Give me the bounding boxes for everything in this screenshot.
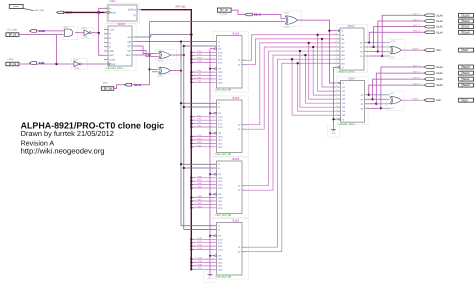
wire xorB out bbox=[171, 70, 181, 72]
svg-text:OUT_3: OUT_3 bbox=[413, 13, 421, 16]
svg-text:CH1: CH1 bbox=[198, 240, 203, 243]
svg-text:74153: 74153 bbox=[231, 218, 239, 222]
gate bounds AND bbox=[63, 27, 78, 40]
IC U6 74153 center #2 bbox=[213, 96, 249, 157]
svg-text:P_IN: P_IN bbox=[106, 87, 112, 91]
thick wire U1 to bus corner bbox=[141, 10, 191, 271]
svg-text:ENT: ENT bbox=[109, 54, 114, 57]
svg-text:4070: 4070 bbox=[158, 60, 164, 63]
svg-text:4: 4 bbox=[194, 244, 195, 247]
svg-text:OUT_0: OUT_0 bbox=[413, 30, 421, 33]
svg-text:Drawn by furrtek 21/05/2012: Drawn by furrtek 21/05/2012 bbox=[21, 129, 114, 138]
svg-text:S1P: S1P bbox=[436, 49, 441, 52]
svg-text:4: 4 bbox=[194, 57, 195, 60]
svg-text:12: 12 bbox=[194, 141, 196, 144]
wire mid xor out to selects bbox=[298, 20, 337, 83]
svg-text:CLR: CLR bbox=[109, 28, 114, 31]
svg-text:2G: 2G bbox=[218, 132, 221, 135]
gate bounds XOR right2 bbox=[387, 91, 405, 111]
svg-text:1G: 1G bbox=[218, 173, 221, 176]
svg-text:S1P: S1P bbox=[463, 48, 468, 52]
wire mid xor in2 bbox=[150, 21, 285, 23]
svg-text:G: G bbox=[342, 66, 344, 69]
XOR gate right2 bbox=[391, 96, 401, 104]
svg-text:13: 13 bbox=[194, 144, 196, 147]
svg-text:CH6: CH6 bbox=[198, 263, 203, 266]
junction row2 bbox=[55, 63, 57, 65]
svg-text:GND: GND bbox=[208, 277, 213, 280]
svg-text:11: 11 bbox=[194, 138, 196, 141]
global label arrow top mid bbox=[245, 13, 252, 16]
svg-text:CLK: CLK bbox=[111, 63, 116, 66]
svg-text:U1A: U1A bbox=[110, 0, 116, 3]
wire inverter to U2 ENT bbox=[99, 33, 104, 55]
svg-text:1: 1 bbox=[63, 29, 64, 32]
IC U1 pin SER bbox=[104, 7, 108, 9]
svg-text:S1A0: S1A0 bbox=[463, 30, 470, 34]
input port top middle bbox=[217, 8, 231, 12]
svg-text:4: 4 bbox=[194, 121, 195, 124]
svg-text:S1A1: S1A1 bbox=[436, 26, 443, 29]
XOR gate A bbox=[160, 52, 171, 59]
junction on CLK wire bbox=[97, 11, 100, 14]
svg-text:ENP: ENP bbox=[109, 50, 114, 53]
svg-text:P_IN: P_IN bbox=[10, 62, 16, 66]
svg-text:5: 5 bbox=[336, 93, 337, 96]
svg-text:5: 5 bbox=[194, 240, 195, 243]
gate bounds XOR B bbox=[158, 63, 179, 74]
AND gate U3 bbox=[65, 29, 73, 36]
junction QA bus bbox=[190, 33, 193, 36]
wire RCO tap bbox=[137, 54, 150, 56]
svg-text:CLK: CLK bbox=[111, 11, 116, 14]
wire QD down bbox=[137, 51, 159, 57]
svg-text:12: 12 bbox=[194, 202, 196, 205]
svg-text:2: 2 bbox=[336, 85, 337, 88]
svg-text:Q: Q bbox=[134, 14, 136, 17]
svg-text:P_CLK: P_CLK bbox=[220, 13, 228, 16]
gate bounds XOR A bbox=[156, 50, 177, 61]
wire buffer2 to U2 CLK bbox=[81, 63, 108, 65]
svg-text:5: 5 bbox=[335, 41, 336, 44]
wire x149.5 vertical bbox=[149, 22, 151, 85]
gate bounds INV bbox=[82, 28, 94, 39]
svg-text:2: 2 bbox=[335, 32, 336, 35]
svg-text:S2P: S2P bbox=[436, 99, 441, 102]
GND symbol below mux2 bbox=[328, 126, 340, 137]
svg-text:74AS_MC2_BR: 74AS_MC2_BR bbox=[215, 153, 232, 156]
svg-text:OUT_4: OUT_4 bbox=[413, 82, 421, 85]
svg-text:S2PA: S2PA bbox=[413, 98, 419, 101]
output group2 rows bbox=[368, 94, 370, 96]
wire A into IC1 bbox=[181, 41, 217, 43]
svg-text:6: 6 bbox=[336, 97, 337, 100]
IC U1 faint bounds bbox=[107, 4, 140, 24]
wire QC to xorA bbox=[137, 46, 159, 54]
XOR gate B bbox=[160, 67, 171, 74]
svg-text:10: 10 bbox=[194, 134, 196, 137]
svg-text:12: 12 bbox=[194, 264, 196, 267]
svg-text:OUT_5: OUT_5 bbox=[413, 76, 421, 79]
wires mux1 rows tapped down to mux2 inputs bbox=[318, 35, 337, 91]
svg-text:6: 6 bbox=[194, 50, 195, 53]
svg-text:REF_8M: REF_8M bbox=[176, 6, 186, 9]
svg-text:5: 5 bbox=[194, 118, 195, 121]
svg-text:QB: QB bbox=[128, 40, 132, 43]
svg-text:RCO: RCO bbox=[126, 54, 131, 57]
svg-text:S1A2: S1A2 bbox=[436, 20, 443, 23]
svg-text:S2A0: S2A0 bbox=[463, 83, 470, 87]
thick wire CLK to U1 bbox=[64, 11, 108, 13]
svg-text:QC: QC bbox=[128, 45, 132, 48]
IC U8 74153 center #4 bbox=[213, 219, 249, 280]
wire QB over bbox=[137, 41, 182, 43]
sheet symbol box top-left bbox=[9, 4, 23, 8]
svg-text:10: 10 bbox=[194, 257, 196, 260]
svg-text:13: 13 bbox=[194, 205, 196, 208]
svg-text:5: 5 bbox=[194, 179, 195, 182]
svg-text:CH3: CH3 bbox=[198, 247, 203, 250]
svg-text:OUT_2: OUT_2 bbox=[413, 18, 421, 21]
svg-text:4070: 4070 bbox=[284, 12, 290, 15]
svg-text:http://wiki.neogeodev.org: http://wiki.neogeodev.org bbox=[21, 146, 105, 155]
wire port2 to buffer bbox=[19, 63, 74, 65]
svg-text:1: 1 bbox=[335, 28, 336, 31]
svg-text:CH4: CH4 bbox=[198, 257, 203, 260]
junction xorA out bbox=[183, 54, 185, 56]
svg-text:1G: 1G bbox=[218, 48, 221, 51]
wire port1 to AND bbox=[19, 34, 65, 36]
IC U2 left pins bbox=[104, 29, 108, 31]
wire from sheet to label bbox=[23, 8, 33, 10]
svg-text:74153: 74153 bbox=[231, 31, 239, 35]
global label arrow row1 bbox=[30, 30, 37, 33]
svg-text:74157: 74157 bbox=[347, 24, 355, 28]
svg-text:11: 11 bbox=[194, 260, 196, 263]
svg-text:S1A0: S1A0 bbox=[436, 31, 443, 34]
wire xorA out bbox=[171, 54, 184, 56]
IC U2 box bbox=[108, 26, 132, 66]
junction B IC1 bbox=[183, 45, 185, 47]
svg-text:6: 6 bbox=[194, 175, 195, 178]
svg-text:SER Q: SER Q bbox=[128, 9, 136, 12]
XOR gate mid bbox=[286, 16, 297, 25]
svg-text:11: 11 bbox=[194, 199, 196, 202]
svg-text:74HC163_SO16: 74HC163_SO16 bbox=[106, 67, 124, 70]
svg-text:S2A0: S2A0 bbox=[436, 84, 443, 87]
svg-text:S1A3: S1A3 bbox=[463, 13, 470, 17]
input port row3 bbox=[101, 87, 114, 91]
svg-text:10: 10 bbox=[336, 105, 338, 108]
svg-text:S2A1: S2A1 bbox=[436, 78, 443, 81]
svg-text:3: 3 bbox=[335, 37, 336, 40]
wire port3 to arrow bbox=[114, 85, 125, 89]
svg-text:PC_4MB: PC_4MB bbox=[7, 29, 17, 32]
wire select A vertical bbox=[180, 42, 182, 226]
wires center outputs to mux1 inputs bbox=[247, 35, 337, 60]
wire to mid xor in1 bbox=[252, 15, 285, 19]
wire AND out bbox=[75, 32, 84, 34]
global label arrow row3 bbox=[125, 83, 132, 86]
svg-text:10: 10 bbox=[194, 70, 196, 73]
wire inverter out bbox=[91, 32, 99, 34]
svg-text:S2A2: S2A2 bbox=[463, 71, 470, 75]
svg-text:S2A1: S2A1 bbox=[463, 77, 470, 81]
output row xor1 bbox=[402, 49, 425, 51]
svg-text:LSPC: LSPC bbox=[7, 58, 14, 61]
svg-text:OUT_6: OUT_6 bbox=[413, 70, 421, 73]
svg-text:OUT_1: OUT_1 bbox=[413, 24, 421, 27]
wire row3 to vertical bbox=[132, 84, 150, 86]
svg-text:P_IN: P_IN bbox=[222, 8, 228, 12]
svg-text:S1A2: S1A2 bbox=[463, 19, 470, 23]
IC U9 74157 mux top bbox=[337, 25, 368, 73]
junction xorB out bbox=[180, 70, 182, 72]
svg-text:24M: 24M bbox=[39, 61, 45, 65]
wire QA up-over bbox=[137, 35, 192, 38]
inverter U4 bbox=[84, 30, 89, 36]
svg-text:13: 13 bbox=[194, 267, 196, 270]
svg-text:S1A3: S1A3 bbox=[436, 14, 443, 17]
svg-text:13: 13 bbox=[336, 113, 338, 116]
output group1 rows bbox=[368, 42, 371, 44]
svg-text:11: 11 bbox=[194, 73, 196, 76]
svg-text:3: 3 bbox=[194, 125, 195, 128]
GND symbol below select vertical bbox=[204, 271, 216, 283]
svg-text:CH0: CH0 bbox=[198, 237, 203, 240]
svg-text:S1PA: S1PA bbox=[413, 47, 419, 50]
svg-text:2G: 2G bbox=[218, 255, 221, 258]
svg-text:3: 3 bbox=[336, 89, 337, 92]
svg-text:11: 11 bbox=[336, 101, 338, 104]
svg-text:S2A3: S2A3 bbox=[436, 66, 443, 69]
IC U1 pin CLK bbox=[104, 11, 108, 13]
svg-text:2G: 2G bbox=[218, 68, 221, 71]
IC U1 pin Q out bbox=[137, 9, 141, 11]
svg-text:14: 14 bbox=[335, 57, 337, 60]
wire select B vertical bbox=[183, 46, 185, 230]
wire top port to label bbox=[231, 10, 245, 14]
wire netlabel1 to AND in1 bbox=[37, 30, 65, 32]
input port PAD_IN2 bbox=[6, 62, 19, 66]
output row xor2 bbox=[402, 99, 425, 101]
gate bounds BUF2 bbox=[72, 59, 88, 70]
svg-text:12: 12 bbox=[194, 77, 196, 80]
svg-text:13: 13 bbox=[335, 61, 337, 64]
gate bounds XOR right1 bbox=[388, 40, 406, 60]
wire B into IC1 bbox=[184, 45, 217, 47]
IC U7 74153 center #3 bbox=[213, 157, 249, 218]
junction inverter node bbox=[98, 32, 100, 34]
junction A IC1 bbox=[180, 40, 182, 42]
svg-text:74AS_MC2_BR: 74AS_MC2_BR bbox=[215, 214, 232, 217]
svg-text:74AS_MC2_BR: 74AS_MC2_BR bbox=[215, 276, 232, 279]
svg-text:REF_8M: REF_8M bbox=[35, 9, 44, 12]
svg-text:6: 6 bbox=[194, 114, 195, 117]
svg-text:74153: 74153 bbox=[231, 96, 239, 100]
svg-text:10: 10 bbox=[194, 195, 196, 198]
svg-text:4070: 4070 bbox=[158, 75, 164, 78]
svg-text:10: 10 bbox=[335, 53, 337, 56]
wire SER feedback bbox=[99, 7, 108, 9]
wire select into mux1 bbox=[329, 30, 336, 32]
svg-text:6: 6 bbox=[335, 45, 336, 48]
svg-text:74157: 74157 bbox=[348, 76, 356, 80]
svg-text:S2A2: S2A2 bbox=[436, 72, 443, 75]
svg-text:5: 5 bbox=[194, 53, 195, 56]
svg-text:S1A1: S1A1 bbox=[463, 25, 470, 29]
IC U2 faint bounds bbox=[105, 24, 136, 71]
buffer2 bbox=[74, 61, 79, 67]
svg-text:QD: QD bbox=[128, 49, 132, 52]
XOR gate right1 bbox=[391, 46, 401, 54]
global label arrow row2 bbox=[30, 62, 37, 65]
svg-text:3: 3 bbox=[194, 186, 195, 189]
svg-text:4: 4 bbox=[194, 182, 195, 185]
svg-text:2: 2 bbox=[63, 36, 64, 39]
IC U2 right pins bbox=[132, 36, 137, 38]
svg-text:74153: 74153 bbox=[231, 157, 239, 161]
input port PAD_IN1 bbox=[6, 33, 19, 37]
svg-text:1: 1 bbox=[336, 81, 337, 84]
wire strobe gnd chain bbox=[334, 67, 337, 130]
junction strobe2 bbox=[332, 118, 334, 120]
svg-text:14: 14 bbox=[336, 109, 338, 112]
junction select mux1 bbox=[328, 30, 330, 32]
svg-text:11: 11 bbox=[335, 49, 337, 52]
IC U10 74157 mux bottom bbox=[337, 77, 368, 125]
svg-text:2G: 2G bbox=[218, 193, 221, 196]
junction RCO bbox=[148, 54, 150, 56]
svg-text:13: 13 bbox=[194, 80, 196, 83]
svg-text:OUT_7: OUT_7 bbox=[413, 64, 421, 67]
svg-text:D: D bbox=[110, 7, 112, 10]
svg-text:1G: 1G bbox=[218, 112, 221, 115]
svg-text:CH2: CH2 bbox=[198, 244, 203, 247]
junction xorB in bbox=[148, 68, 150, 70]
svg-text:74163: 74163 bbox=[117, 22, 125, 26]
svg-text:QA: QA bbox=[128, 36, 132, 39]
svg-text:CH5: CH5 bbox=[198, 260, 203, 263]
svg-text:CH7: CH7 bbox=[198, 267, 203, 270]
svg-text:1G: 1G bbox=[218, 235, 221, 238]
svg-text:3: 3 bbox=[194, 247, 195, 250]
global label arrow CLK input bbox=[57, 11, 64, 14]
svg-text:GND: GND bbox=[331, 132, 336, 135]
wire xorB inputs bbox=[150, 68, 159, 70]
IC U1 box bbox=[108, 5, 137, 21]
svg-text:S2A3: S2A3 bbox=[463, 65, 470, 69]
svg-text:S2P: S2P bbox=[463, 98, 468, 102]
svg-text:P_IN: P_IN bbox=[10, 33, 16, 37]
svg-text:G: G bbox=[342, 118, 344, 121]
svg-text:4070: 4070 bbox=[284, 26, 290, 29]
svg-text:74AS157_SO16: 74AS157_SO16 bbox=[338, 123, 355, 126]
svg-text:74AS157_SO16: 74AS157_SO16 bbox=[338, 71, 355, 74]
svg-text:6: 6 bbox=[194, 237, 195, 240]
wire feedback vertical x98.7 bbox=[98, 8, 100, 33]
svg-text:4MB: 4MB bbox=[103, 82, 108, 85]
svg-text:74AS_MC2_BR: 74AS_MC2_BR bbox=[215, 89, 232, 92]
svg-text:LOAD: LOAD bbox=[109, 59, 115, 62]
wire vertical to AND in2 bbox=[56, 35, 58, 64]
svg-text:3: 3 bbox=[194, 60, 195, 63]
IC U5 74153 center #1 bbox=[213, 32, 249, 93]
gate bounds XOR mid bbox=[282, 11, 302, 27]
